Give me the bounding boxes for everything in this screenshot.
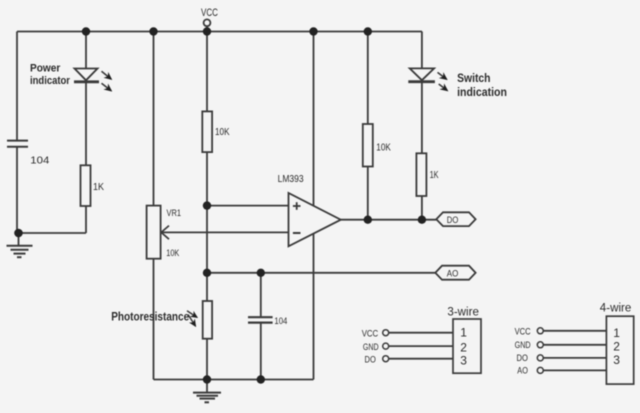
svg-text:Power: Power (30, 63, 61, 75)
svg-text:104: 104 (30, 155, 49, 166)
svg-text:4-wire: 4-wire (600, 303, 632, 315)
svg-text:VR1: VR1 (167, 208, 182, 219)
svg-text:indication: indication (457, 85, 507, 99)
svg-text:1K: 1K (430, 170, 439, 181)
svg-text:1K: 1K (93, 182, 104, 193)
svg-text:AO: AO (517, 365, 528, 376)
svg-text:10K: 10K (215, 127, 230, 138)
svg-text:10K: 10K (166, 248, 180, 259)
svg-text:indicator: indicator (30, 75, 71, 87)
svg-text:10K: 10K (376, 142, 391, 153)
svg-text:Photoresistance: Photoresistance (111, 312, 189, 324)
svg-text:DO: DO (517, 353, 528, 364)
svg-text:DO: DO (447, 215, 459, 226)
svg-text:GND: GND (363, 342, 379, 353)
svg-text:3-wire: 3-wire (447, 307, 479, 319)
svg-text:VCC: VCC (362, 329, 379, 340)
svg-text:104: 104 (274, 316, 287, 326)
svg-text:VCC: VCC (515, 326, 531, 337)
svg-text:3: 3 (613, 353, 620, 367)
svg-text:1: 1 (460, 325, 467, 339)
svg-text:VCC: VCC (201, 7, 218, 19)
svg-text:GND: GND (515, 340, 531, 351)
svg-text:AO: AO (447, 268, 459, 279)
svg-text:2: 2 (613, 340, 620, 354)
svg-text:DO: DO (365, 354, 376, 365)
svg-text:1: 1 (613, 326, 620, 340)
svg-text:3: 3 (460, 353, 467, 367)
svg-text:LM393: LM393 (278, 174, 304, 185)
svg-text:Switch: Switch (457, 71, 490, 85)
